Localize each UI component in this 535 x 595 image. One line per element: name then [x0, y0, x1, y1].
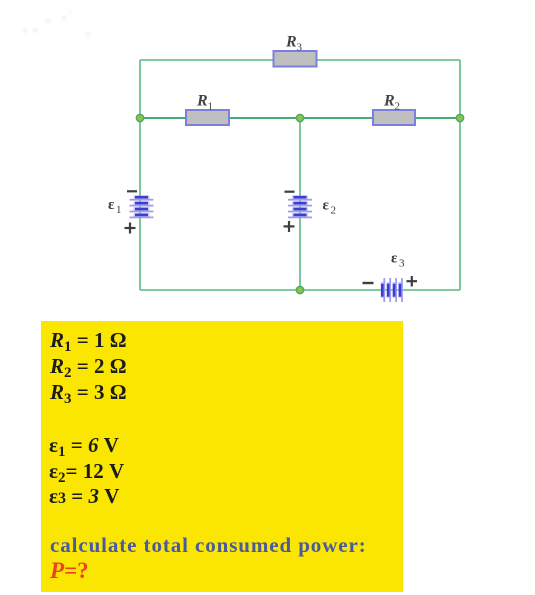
label eps1 plus sign	[125, 223, 136, 234]
svg-text:2: 2	[331, 205, 337, 217]
svg-text:ε: ε	[391, 251, 398, 267]
text eps2 = 12 V	[49, 459, 124, 487]
wire middle horizontal (through R1, R2)	[140, 117, 460, 119]
label eps2 plus sign	[284, 221, 295, 232]
node junction right (460,118)	[456, 114, 463, 121]
text eps1 = 6 V	[49, 433, 119, 461]
svg-text:1: 1	[208, 101, 214, 113]
svg-text:ε: ε	[323, 198, 330, 214]
text eps3 = 3 V	[49, 484, 119, 509]
svg-text:R: R	[383, 93, 395, 110]
resistor R3	[274, 51, 317, 67]
faint pink artifact dots top-left	[23, 29, 27, 33]
wire left vertical (through eps1)	[139, 60, 141, 290]
circuit schematic SVG	[0, 0, 535, 320]
battery eps3 (4 cells, horizontal, center y=290)	[381, 278, 403, 302]
yellow data panel	[41, 321, 403, 592]
label eps1 minus sign	[127, 190, 137, 192]
svg-text:R: R	[196, 93, 208, 110]
svg-text:2: 2	[395, 101, 401, 113]
battery eps2 (4 cells, vertical, center x=300)	[288, 195, 312, 218]
svg-text:R: R	[285, 34, 297, 51]
text R3 = 3 Ohm	[50, 380, 127, 408]
resistor R1	[186, 110, 229, 125]
svg-text:3: 3	[297, 42, 303, 54]
node junction middle (300,118)	[296, 114, 303, 121]
text R2 = 2 Ohm	[50, 354, 127, 382]
battery eps1 (4 cells, vertical, center x=141.5)	[130, 195, 154, 218]
node junction left (140,118)	[136, 114, 143, 121]
text P=?	[50, 558, 89, 584]
svg-text:ε: ε	[108, 197, 115, 213]
svg-text:1: 1	[116, 204, 122, 216]
label eps3 minus sign	[363, 282, 374, 284]
label eps3 plus sign	[407, 276, 418, 287]
text calculate total consumed power:	[50, 533, 367, 558]
resistor R2	[373, 110, 415, 125]
wire bottom (through eps3)	[140, 289, 460, 291]
node junction bottom (300,290)	[296, 286, 303, 293]
text R1 = 1 Ohm	[50, 328, 127, 356]
wire top (node A to node B via R3)	[140, 59, 460, 61]
wire right vertical	[459, 60, 461, 290]
svg-text:3: 3	[399, 258, 405, 270]
wire middle vertical (through eps2)	[299, 118, 301, 290]
label eps2 minus sign	[285, 191, 295, 193]
